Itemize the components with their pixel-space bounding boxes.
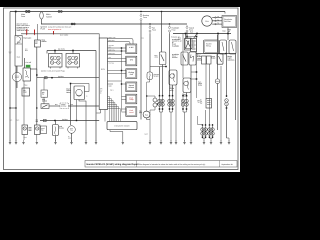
wire regulator to batt bus bbox=[227, 28, 229, 34]
label brake light switches bbox=[228, 55, 235, 61]
fuse headlight F4 bbox=[169, 25, 171, 33]
wire left x16 drop bbox=[15, 66, 17, 142]
wire headlight main drop bbox=[161, 12, 163, 53]
wire battery drops bbox=[186, 34, 229, 41]
wire main fuse drop bbox=[15, 12, 17, 36]
svg-text:Rectifier: Rectifier bbox=[224, 20, 231, 23]
fuse backup F2 bbox=[140, 13, 142, 21]
label grn left1 bbox=[10, 118, 13, 121]
label rear brake light switch bbox=[197, 53, 202, 61]
wire signal top drop bbox=[182, 33, 184, 78]
ground gnd 10 bbox=[149, 140, 152, 145]
switch dimmer left bbox=[159, 52, 166, 65]
svg-text:Fuse: Fuse bbox=[143, 16, 147, 19]
label signal fuse bbox=[189, 26, 195, 31]
ground gnd 16 bbox=[220, 140, 223, 145]
wire regulator drop bbox=[224, 12, 226, 14]
connector main bus 2 bbox=[58, 11, 62, 13]
node cross a bbox=[9, 107, 10, 108]
switch solenoid bbox=[185, 39, 191, 51]
wire tap fuel temp bbox=[122, 97, 126, 100]
label ignition row bbox=[58, 75, 64, 78]
node coil1 feed bbox=[54, 50, 56, 52]
wire hl bottom bbox=[150, 66, 166, 68]
svg-text:Sensor: Sensor bbox=[128, 86, 134, 89]
wire tap fuel level bbox=[122, 109, 126, 112]
lamp turn front right pair bbox=[168, 33, 175, 112]
wire bus unit to cluster bbox=[108, 97, 121, 122]
wire horn drop bbox=[205, 64, 207, 99]
title block bbox=[85, 161, 237, 168]
connector D ignition feed bbox=[44, 119, 47, 121]
label grn red bbox=[25, 48, 28, 51]
node kill b bbox=[36, 107, 37, 108]
wire main +12V bus y=11.5 bbox=[10, 11, 225, 13]
svg-text:ECU: ECU bbox=[101, 68, 106, 71]
ground assembly left mark bbox=[9, 52, 12, 53]
wires unit tps bbox=[108, 57, 126, 64]
wire kill up bbox=[37, 24, 39, 40]
wire fan fuse drop bbox=[149, 33, 151, 72]
switch headlight relay bbox=[185, 38, 192, 49]
node batt 1 bbox=[185, 33, 187, 35]
switch main (key switch) S1 bbox=[40, 12, 44, 25]
switch dimmer A bbox=[181, 52, 188, 65]
fuse signal F5 bbox=[186, 25, 188, 33]
label fuel pump relay bbox=[67, 87, 71, 93]
wire cross y=108 bbox=[10, 107, 16, 109]
wire tap pickup bbox=[108, 71, 126, 74]
lamp tail left pair bbox=[201, 110, 208, 142]
wire unit top feed bbox=[21, 34, 99, 38]
label int sw bbox=[198, 99, 201, 104]
label main fuse bbox=[21, 13, 25, 18]
svg-text:Motor: Motor bbox=[15, 77, 19, 79]
svg-text:September 99: September 99 bbox=[222, 163, 233, 166]
title text middle bbox=[139, 163, 206, 166]
node tap speed bbox=[121, 83, 122, 84]
label probably bbox=[171, 35, 181, 38]
svg-text:GND: GND bbox=[109, 85, 112, 87]
switch dimmer B bbox=[189, 52, 196, 65]
svg-text:+5v: +5v bbox=[109, 57, 112, 59]
connector 4-11P bbox=[126, 44, 137, 54]
wire battery bus y=35 bbox=[173, 33, 231, 35]
wire assembly drop left bbox=[9, 12, 11, 142]
ground gnd 11 bbox=[160, 140, 163, 145]
label gnd mid bbox=[109, 85, 114, 91]
label ign coils bbox=[58, 48, 65, 51]
node batt 2 bbox=[196, 33, 198, 35]
node headlight feed tap bbox=[161, 11, 162, 12]
label batt bus bbox=[190, 31, 194, 34]
label headlight hilo bbox=[172, 53, 179, 59]
ground gnd 13 bbox=[175, 140, 178, 145]
lamp brake bbox=[225, 95, 229, 105]
starter motor M1 bbox=[12, 72, 21, 81]
wire tap bus x121.5 bbox=[121, 48, 123, 112]
sensor TPS bbox=[126, 56, 137, 66]
switch kill box bbox=[35, 40, 41, 47]
svg-text:tank: tank bbox=[68, 137, 71, 139]
fan motor M2 bbox=[143, 111, 150, 118]
label bat right bbox=[71, 103, 74, 106]
wire lamp B tail bbox=[36, 135, 38, 141]
ground gnd 9 bbox=[121, 140, 124, 145]
wire starter drop bbox=[16, 66, 18, 88]
label gnd cluster bbox=[145, 133, 148, 136]
node ignition row bbox=[51, 77, 53, 79]
label assembly bbox=[17, 56, 21, 59]
relay cut-off highlight bbox=[26, 65, 31, 68]
wire switched bus y=24 bbox=[41, 23, 187, 25]
node hl bottom bbox=[165, 66, 167, 68]
flasher relay 2 bbox=[183, 78, 191, 93]
wire relay loop bbox=[71, 84, 90, 92]
svg-text:Orn: Orn bbox=[142, 38, 145, 40]
ground gnd 7 bbox=[85, 140, 88, 145]
note block top-left bbox=[17, 23, 30, 33]
wire relay pin2 bbox=[76, 100, 78, 121]
wire thermal drop bbox=[147, 80, 150, 112]
svg-text:Honda CB750-K1 (SOHC) wiring d: Honda CB750-K1 (SOHC) wiring diagram Rep… bbox=[87, 163, 139, 166]
wire clutch feed bbox=[43, 78, 45, 90]
wire kill switch drop x=36.8 bbox=[36, 47, 38, 125]
node unit r1 bbox=[121, 47, 122, 48]
ground gnd 6 bbox=[70, 140, 73, 145]
wire hl link bbox=[187, 36, 197, 38]
svg-text:Fuse: Fuse bbox=[152, 28, 156, 31]
wire unit bottom to cluster bbox=[104, 110, 106, 122]
label ignition feed bbox=[62, 118, 68, 121]
node brake feed bbox=[225, 53, 226, 54]
wire ignition row y=77.7 bbox=[37, 77, 99, 79]
annotation arrow red 2 bbox=[34, 30, 36, 36]
label headlight control bbox=[172, 38, 179, 47]
node batt 4 bbox=[227, 33, 229, 35]
ground tail right bbox=[210, 140, 213, 145]
wire cutoff right bbox=[31, 68, 37, 70]
ground gnd 2 bbox=[15, 140, 18, 145]
node thermo feed bbox=[146, 95, 147, 96]
ground gnd 5 bbox=[54, 140, 57, 145]
node brake lamp bbox=[226, 107, 228, 109]
label front brake bbox=[211, 55, 216, 60]
generator G1 bbox=[202, 16, 212, 26]
instrument cluster bbox=[107, 122, 137, 130]
sensor fuel level bbox=[126, 107, 137, 117]
node kill a bbox=[36, 74, 38, 76]
label fan bbox=[139, 110, 143, 115]
wire x217.5 bbox=[217, 35, 219, 130]
relay cut-off K2 bbox=[23, 68, 31, 81]
clutch switch box bbox=[41, 90, 48, 97]
relay fuel pump K3 bbox=[74, 86, 85, 100]
wire x196.5 bbox=[196, 37, 198, 99]
ignition coil T2 bbox=[66, 54, 80, 69]
wire flasher right taps bbox=[191, 72, 197, 79]
connector marks x36.8 bbox=[36, 120, 38, 122]
label fuel switch bbox=[41, 126, 47, 134]
ignition coil T1 bbox=[49, 54, 63, 69]
wire signal fuse drop bbox=[186, 33, 188, 39]
wire thermo feed bbox=[147, 96, 155, 98]
switch brake light bbox=[217, 54, 223, 64]
wire x221 bbox=[220, 66, 222, 142]
wire tail feed jog bbox=[198, 116, 203, 125]
label red 12v note bbox=[178, 36, 182, 42]
node fan fuse tap bbox=[149, 23, 150, 24]
wire relay ground path bbox=[79, 100, 86, 142]
label fuel valve bbox=[24, 37, 32, 40]
label gnd bottom left bbox=[24, 136, 27, 139]
wire brake lamp down bbox=[227, 106, 230, 142]
label ignition fuse bbox=[41, 26, 47, 31]
label unit pins bbox=[100, 88, 103, 94]
indicator oil lamp box bbox=[22, 88, 30, 96]
svg-text:Fuse: Fuse bbox=[189, 28, 193, 31]
ground gnd 3 bbox=[22, 140, 25, 145]
node tap pickup bbox=[121, 70, 122, 71]
title text main bbox=[87, 163, 139, 166]
svg-text:Relay: Relay bbox=[206, 44, 211, 47]
lamp turn front left pair bbox=[158, 65, 165, 113]
svg-text:Coil: Coil bbox=[130, 73, 134, 76]
svg-text:to: to bbox=[86, 96, 87, 98]
ground gnd 17 bbox=[228, 140, 231, 145]
wire cluster ground bbox=[110, 130, 123, 142]
fuse fan F3 bbox=[149, 25, 151, 33]
svg-text:Temp: Temp bbox=[129, 98, 133, 101]
svg-text:(100Ma): (100Ma) bbox=[61, 106, 67, 108]
connector ignition row bbox=[45, 77, 48, 79]
wire 12vdc row bbox=[49, 105, 99, 107]
node hl2 bbox=[196, 36, 198, 38]
connector acc bus bbox=[71, 23, 75, 25]
label flasher 1 bbox=[170, 86, 175, 92]
svg-text:Fuse: Fuse bbox=[172, 28, 176, 31]
battery BT1 bbox=[191, 39, 197, 52]
wires unit right upper bbox=[108, 36, 134, 55]
node ignition feed bbox=[54, 120, 56, 122]
ignition switch drawing bbox=[17, 37, 21, 44]
wire fan feed bbox=[140, 22, 142, 120]
wire gen-reg stubs bbox=[212, 16, 222, 25]
wire x96 drop bbox=[95, 51, 97, 142]
wire x235.5 bbox=[235, 54, 237, 121]
page background bbox=[0, 0, 240, 180]
svg-text:Fuse: Fuse bbox=[21, 15, 25, 18]
wire coil feed y=49 bbox=[47, 50, 96, 52]
label orn bbox=[142, 38, 145, 40]
lamp speedo A bbox=[22, 125, 28, 135]
wire fuel pump ground bbox=[71, 133, 73, 142]
switch eng stop bbox=[41, 104, 49, 109]
wire sender drop bbox=[55, 121, 57, 142]
sensor pickup coil bbox=[126, 69, 137, 79]
svg-text:Red: Red bbox=[25, 50, 28, 52]
starter relay K1 bbox=[204, 40, 219, 54]
lamp position bbox=[215, 79, 220, 84]
wire unit bottom ground bbox=[97, 110, 101, 114]
wire brake feed y=53.5 bbox=[196, 53, 236, 55]
wire x191 bbox=[190, 65, 192, 142]
wire cutoff junction drop bbox=[36, 69, 38, 78]
note red text bbox=[48, 28, 61, 31]
node fuel pump relay bbox=[70, 83, 72, 85]
node ft1 bbox=[196, 71, 198, 73]
node backup fuse tap bbox=[140, 11, 141, 12]
svg-text:Batt 12v+: Batt 12v+ bbox=[109, 40, 116, 42]
horn boxes bbox=[202, 56, 212, 64]
label bat left bbox=[55, 103, 58, 106]
label thermal sensor bbox=[154, 73, 160, 78]
label eng stop switch bbox=[42, 98, 47, 103]
node headlight fuse tap bbox=[169, 23, 170, 24]
wire fuel pump feed bbox=[70, 84, 72, 126]
fuse main (connector symbol) bbox=[26, 11, 31, 13]
sensor speed bbox=[126, 82, 137, 92]
thermo switch bbox=[153, 98, 158, 107]
label flasher 2 bbox=[184, 93, 188, 98]
ground gnd 8 bbox=[95, 140, 98, 145]
annotation red tick bbox=[53, 31, 55, 35]
ground gnd 1 bbox=[9, 140, 12, 145]
node ft2 bbox=[196, 78, 198, 80]
dimmer switch right bbox=[206, 99, 212, 109]
wire lamp A feed bbox=[23, 81, 25, 140]
wire ignition feed y=120.5 bbox=[40, 120, 99, 122]
ground gnd 4 bbox=[35, 140, 38, 145]
label backup fuse bbox=[143, 14, 149, 19]
svg-text:(Wht): (Wht) bbox=[155, 57, 159, 59]
node cross b bbox=[15, 107, 16, 108]
control unit U1 bbox=[99, 38, 107, 110]
node hl bbox=[186, 36, 188, 38]
ground tail left bbox=[203, 140, 206, 145]
svg-text:Cut-off: Cut-off bbox=[26, 61, 32, 64]
wire cutoff feed bbox=[24, 58, 26, 68]
svg-text:Switch: Switch bbox=[46, 15, 52, 18]
component sender bbox=[53, 125, 59, 136]
svg-text:Fan +: Fan + bbox=[110, 89, 114, 91]
connector marks between bbox=[29, 128, 32, 131]
wire turn fr ground bbox=[170, 112, 172, 142]
wire x226.5 bbox=[226, 54, 228, 98]
title text right bbox=[222, 163, 233, 166]
label fuel pump note bbox=[68, 136, 71, 139]
label dimmer right bbox=[200, 99, 203, 105]
svg-text:Gen: Gen bbox=[205, 20, 209, 23]
thermal sensor bbox=[147, 72, 153, 80]
annotation arrow red 1 bbox=[26, 30, 28, 36]
lamp speedo B bbox=[35, 125, 41, 135]
label blue wht bbox=[155, 55, 159, 58]
wire thermo down bbox=[150, 107, 155, 142]
label stop switch bbox=[42, 38, 47, 43]
label main switch bbox=[46, 13, 52, 18]
label neutral bbox=[25, 84, 28, 87]
sensor fuel temp bbox=[126, 94, 137, 104]
label fan fuse bbox=[152, 26, 156, 31]
node relay pin2 bbox=[76, 120, 77, 121]
label relay note bbox=[86, 96, 87, 98]
node coil2 feed bbox=[72, 50, 74, 52]
ignition switch assembly box bbox=[15, 36, 22, 67]
svg-text:This diagram is intended to sh: This diagram is intended to show the bas… bbox=[139, 163, 206, 166]
ground gnd 15 bbox=[190, 140, 193, 145]
svg-text:Pmp: Pmp bbox=[70, 129, 73, 131]
front brake switch housing bbox=[229, 40, 236, 54]
fuel pump M3 bbox=[68, 126, 76, 134]
rear brake switch housing bbox=[220, 40, 227, 54]
svg-text:Instrument Cluster: Instrument Cluster bbox=[114, 124, 130, 127]
symbol charge output bbox=[223, 30, 231, 33]
ground gnd 12 bbox=[170, 140, 173, 145]
dashed box 12VDC bbox=[60, 103, 69, 109]
regulator rectifier U2 bbox=[222, 16, 237, 28]
ground gnd 14 bbox=[183, 140, 186, 145]
wire clutch to switch bbox=[43, 97, 45, 104]
label cut-off bbox=[26, 61, 32, 64]
wire coil drops bbox=[47, 51, 73, 54]
page border frame bbox=[4, 8, 239, 170]
svg-text:Level: Level bbox=[129, 111, 134, 114]
label acc fuse bbox=[60, 34, 68, 37]
flasher relay 1 bbox=[169, 70, 177, 85]
label sender bbox=[59, 125, 65, 130]
note line mid bbox=[48, 26, 72, 29]
label grn left2 bbox=[17, 118, 20, 121]
wire x176 bbox=[175, 85, 177, 142]
node unit r2 bbox=[121, 50, 122, 51]
lamp tail right pair bbox=[208, 64, 215, 142]
svg-text:GND 12v-: GND 12v- bbox=[109, 49, 116, 51]
node batt 3 bbox=[217, 33, 219, 35]
lamp turn rear pair bbox=[181, 93, 188, 113]
wire turn rear ground bbox=[184, 112, 186, 142]
label ignition coils and spark plugs bbox=[41, 70, 65, 73]
wire turn fl ground bbox=[160, 112, 162, 142]
svg-text:Ignition Coils and Spark Plugs: Ignition Coils and Spark Plugs bbox=[41, 70, 65, 73]
wire fan ground bbox=[147, 118, 151, 120]
label headlight fuse bbox=[172, 26, 180, 31]
label turn flash relay bbox=[198, 81, 202, 87]
node main fuse junction bbox=[15, 11, 17, 13]
wire tap speed bbox=[108, 81, 126, 84]
